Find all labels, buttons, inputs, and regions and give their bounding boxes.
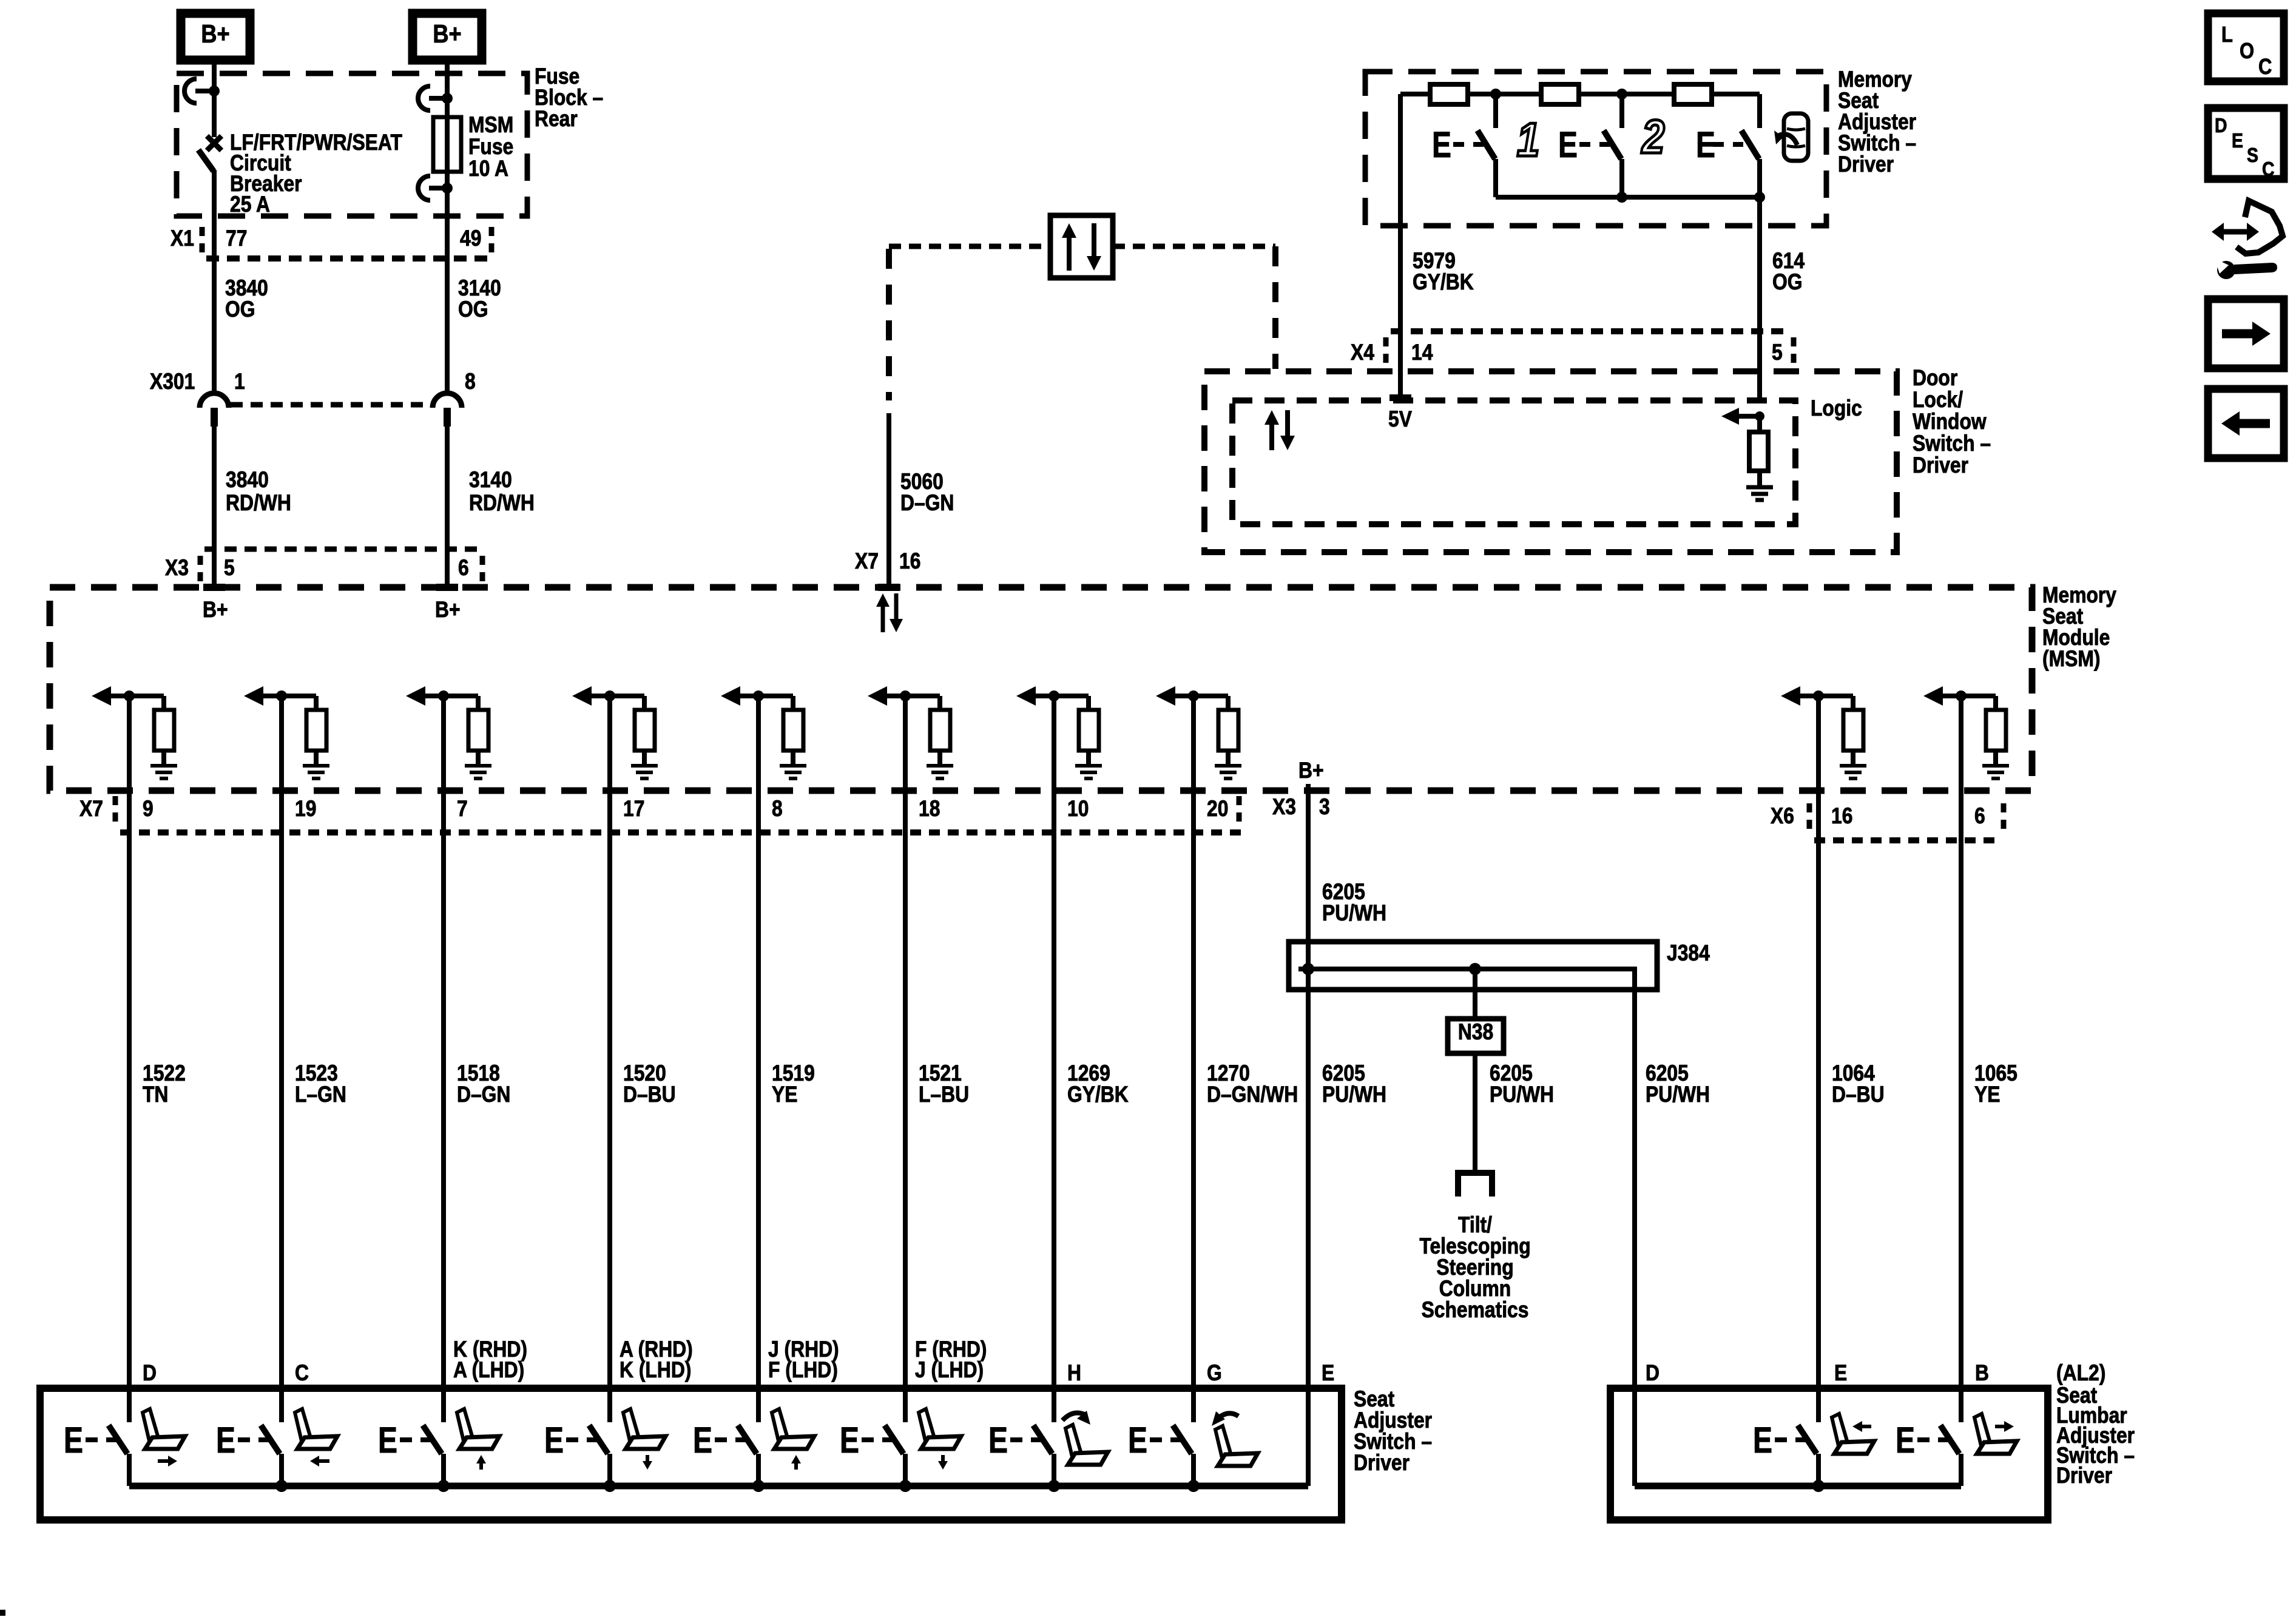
switch 7 (seat adjuster) <box>988 1392 1108 1486</box>
MSM driver output cell 5 <box>721 686 806 778</box>
svg-text:X7: X7 <box>855 549 879 574</box>
MSM driver output cell 6 <box>868 686 953 778</box>
MSM driver output cell 4 <box>572 686 658 778</box>
seat adjuster switch box <box>40 1388 1342 1520</box>
svg-text:E: E <box>216 1420 235 1460</box>
ground (logic) <box>1746 487 1773 500</box>
svg-text:7: 7 <box>457 797 468 822</box>
svg-text:L–GN: L–GN <box>295 1082 346 1107</box>
svg-text:E: E <box>1834 1361 1847 1386</box>
svg-text:PU/WH: PU/WH <box>1490 1082 1554 1107</box>
wire 1518 D–GN <box>444 696 510 1422</box>
connector N38 <box>1448 1019 1504 1053</box>
svg-text:YE: YE <box>1974 1082 2000 1107</box>
circuit breaker LF/FRT/PWR/SEAT 25 A <box>184 79 221 171</box>
svg-text:RD/WH: RD/WH <box>469 491 535 516</box>
memory switch 1 <box>1432 94 1496 197</box>
svg-text:E: E <box>544 1420 564 1460</box>
svg-text:Driver: Driver <box>1913 453 1968 478</box>
MSM fuse 10 A <box>418 86 461 200</box>
dashed wire from box to door lock switch <box>1113 244 1275 249</box>
svg-text:Fuse: Fuse <box>468 135 513 160</box>
wire 1269 GY/BK <box>1054 696 1129 1422</box>
MSM driver output cell 9 <box>1781 686 1866 778</box>
svg-text:N38: N38 <box>1458 1020 1493 1045</box>
svg-text:10 A: 10 A <box>468 157 508 181</box>
wire 3140 RD/WH <box>447 427 535 549</box>
lumbar common bus <box>1635 1480 1961 1492</box>
connector X4 <box>1351 331 1794 365</box>
dashed wire from box to X7:16 <box>889 244 1050 249</box>
svg-text:OG: OG <box>225 297 255 322</box>
label Memory Seat Module (MSM) <box>2042 583 2116 672</box>
label Memory Seat Adjuster Switch - Driver <box>1838 67 1916 177</box>
svg-text:E: E <box>1696 124 1715 165</box>
pin A (RHD)/K (LHD) <box>620 1337 693 1383</box>
car icon <box>1774 113 1808 161</box>
svg-text:D: D <box>2215 114 2227 137</box>
resistor R2 (memory switch) <box>1541 84 1579 104</box>
memory switch top bus wire <box>1400 92 1760 96</box>
svg-text:B+: B+ <box>201 21 229 49</box>
wire fuse to X1 pin 49 <box>445 188 450 258</box>
svg-text:(MSM): (MSM) <box>2042 647 2100 672</box>
switch 1 (seat adjuster) <box>64 1392 185 1486</box>
svg-text:OG: OG <box>1772 270 1802 295</box>
svg-text:3: 3 <box>1319 795 1330 820</box>
connector X301 <box>150 370 476 427</box>
memory switch lower bus <box>1496 195 1760 200</box>
logic dashed box <box>1232 400 1795 524</box>
svg-text:E: E <box>988 1420 1008 1460</box>
svg-text:Driver: Driver <box>1838 152 1894 177</box>
connector X7 pin 16 (MSM) <box>855 549 920 591</box>
svg-text:D: D <box>1646 1361 1660 1386</box>
wire 1519 YE <box>758 696 815 1422</box>
switch 8 (seat adjuster) <box>1128 1392 1258 1486</box>
switch 2 (seat adjuster) <box>216 1392 337 1486</box>
connector X1 <box>171 226 491 258</box>
svg-text:X3: X3 <box>165 556 189 581</box>
svg-text:RD/WH: RD/WH <box>226 491 291 516</box>
svg-text:Rear: Rear <box>535 107 578 132</box>
svg-text:9: 9 <box>143 797 154 822</box>
connector X7 (MSM outputs) <box>79 796 1249 832</box>
svg-text:B: B <box>1975 1361 1989 1386</box>
svg-text:A (LHD): A (LHD) <box>453 1358 524 1383</box>
svg-text:6: 6 <box>1974 804 1985 829</box>
memory switch left wire to X4:14 <box>1398 94 1403 398</box>
switch 3 (seat adjuster) <box>378 1392 499 1486</box>
label Door Lock/Window Switch - Driver <box>1913 366 1991 478</box>
memory switch 2 <box>1558 94 1622 197</box>
svg-text:PU/WH: PU/WH <box>1322 1082 1386 1107</box>
wire 6205 PU/WH (J384 to lumbar switch) <box>1635 969 1710 1385</box>
svg-text:YE: YE <box>772 1082 797 1107</box>
node lower bus junction 1 <box>1616 192 1627 203</box>
svg-text:3140: 3140 <box>469 468 512 493</box>
wire X3:5 into MSM <box>212 549 217 587</box>
svg-text:E: E <box>2232 129 2243 152</box>
MSM internal up/down arrows at X7:16 <box>876 593 903 632</box>
svg-text:C: C <box>295 1361 309 1386</box>
wire J384 to N38 <box>1473 969 1477 1019</box>
resistor R1 (memory switch) <box>1430 84 1468 104</box>
switch 5 (seat adjuster) <box>693 1392 814 1486</box>
wire 1521 L–BU <box>905 696 969 1422</box>
icon LOC <box>2208 13 2284 81</box>
fuse block rear dashed box <box>177 73 527 216</box>
svg-text:19: 19 <box>295 797 316 822</box>
svg-text:E: E <box>1128 1420 1147 1460</box>
svg-text:8: 8 <box>465 370 476 394</box>
svg-text:D–BU: D–BU <box>1832 1082 1885 1107</box>
svg-text:X4: X4 <box>1351 340 1374 365</box>
svg-text:49: 49 <box>460 226 481 251</box>
svg-text:17: 17 <box>623 797 644 822</box>
label circuit breaker <box>230 130 402 217</box>
svg-text:14: 14 <box>1411 340 1433 365</box>
svg-text:C: C <box>2262 158 2274 181</box>
svg-text:E: E <box>1753 1420 1772 1460</box>
icon diagnostic (part + wrench) <box>2212 201 2283 279</box>
svg-text:16: 16 <box>899 549 920 574</box>
wire 5979 GY/BK <box>1413 249 1474 295</box>
wire 3840 RD/WH <box>214 427 291 549</box>
svg-text:C: C <box>2258 55 2272 79</box>
svg-text:1: 1 <box>234 370 245 394</box>
svg-text:77: 77 <box>226 226 247 251</box>
svg-text:GY/BK: GY/BK <box>1067 1082 1129 1107</box>
svg-text:5: 5 <box>1772 340 1783 365</box>
splice pack J384 <box>1289 942 1657 990</box>
MSM driver output cell 10 <box>1923 686 2009 778</box>
svg-text:O: O <box>2240 39 2254 64</box>
svg-text:E: E <box>1896 1420 1915 1460</box>
svg-text:F (LHD): F (LHD) <box>768 1358 838 1383</box>
svg-text:Schematics: Schematics <box>1422 1298 1529 1323</box>
svg-text:X3: X3 <box>1272 795 1296 820</box>
svg-text:OG: OG <box>458 297 488 322</box>
svg-text:Door: Door <box>1913 366 1957 391</box>
svg-text:Logic: Logic <box>1811 396 1862 421</box>
svg-text:PU/WH: PU/WH <box>1646 1082 1710 1107</box>
svg-text:Driver: Driver <box>2056 1463 2112 1488</box>
svg-text:16: 16 <box>1831 804 1852 829</box>
svg-text:6: 6 <box>458 556 469 581</box>
svg-text:X301: X301 <box>150 370 195 394</box>
svg-text:K (LHD): K (LHD) <box>620 1358 691 1383</box>
wire X3:6 into MSM <box>445 549 450 587</box>
svg-text:H: H <box>1067 1361 1081 1386</box>
svg-text:18: 18 <box>919 797 940 822</box>
svg-text:G: G <box>1207 1361 1222 1386</box>
off-page connector (tilt/telescoping) <box>1455 1173 1495 1197</box>
svg-text:L: L <box>2221 23 2233 47</box>
svg-text:PU/WH: PU/WH <box>1322 901 1386 926</box>
lumbar switch 1 <box>1753 1392 1874 1486</box>
wire breaker to X1 pin 77 <box>212 170 217 258</box>
svg-text:GY/BK: GY/BK <box>1413 270 1474 295</box>
svg-text:X6: X6 <box>1771 804 1794 829</box>
svg-text:J (LHD): J (LHD) <box>915 1358 984 1383</box>
svg-text:25 A: 25 A <box>230 192 270 217</box>
wire resistor to ground <box>1757 471 1762 487</box>
label Seat Adjuster Switch - Driver <box>1354 1387 1432 1476</box>
svg-text:J384: J384 <box>1667 941 1710 966</box>
lumbar switch 2 <box>1896 1392 2017 1486</box>
wire 1520 D–BU <box>610 696 676 1422</box>
svg-text:B+: B+ <box>433 21 461 49</box>
icon DESC <box>2208 108 2284 181</box>
wire 3140 OG <box>447 258 501 393</box>
wire 1065 YE <box>1961 696 2017 1422</box>
power symbol B+ #1 <box>181 13 250 60</box>
svg-text:E: E <box>1558 124 1578 165</box>
svg-text:5V: 5V <box>1388 407 1412 432</box>
wire from B+ #1 to circuit breaker <box>212 60 217 91</box>
label (AL2) Seat Lumbar Adjuster Switch - Driver <box>2056 1361 2135 1488</box>
connector X3 pin 3 <box>1272 795 1330 820</box>
MSM driver output cell 2 <box>244 686 329 778</box>
wire 614 OG <box>1760 197 1805 398</box>
svg-text:B+: B+ <box>1298 758 1324 783</box>
label MSM fuse <box>468 113 513 181</box>
wire 5060 D-GN <box>889 413 954 587</box>
lumbar feed wire D <box>1632 1385 1637 1486</box>
seat adjuster common bus <box>129 1422 1308 1492</box>
power symbol B+ #2 <box>413 13 482 60</box>
svg-text:Lock/: Lock/ <box>1913 388 1963 413</box>
seat lumbar adjuster switch box <box>1610 1388 2048 1520</box>
wire 614 into logic <box>1721 408 1764 425</box>
svg-text:B+: B+ <box>435 598 461 623</box>
memory seat adjuster switch dashed box <box>1365 72 1826 226</box>
connector X3 (MSM battery feed) <box>165 549 482 582</box>
svg-text:5: 5 <box>224 556 235 581</box>
MSM driver output cell 3 <box>406 686 491 778</box>
pin F (RHD)/J (LHD) <box>915 1337 987 1383</box>
svg-text:E: E <box>693 1420 712 1460</box>
MSM driver output cell 7 <box>1016 686 1102 778</box>
svg-text:Window: Window <box>1913 410 1987 434</box>
wire 1064 D-BU <box>1818 696 1885 1422</box>
icon forward arrow <box>2208 299 2284 368</box>
svg-text:D: D <box>143 1361 157 1386</box>
svg-text:Switch –: Switch – <box>1913 431 1991 456</box>
svg-text:D–GN: D–GN <box>900 491 954 516</box>
label Fuse Block - Rear <box>535 64 603 132</box>
switch 4 (seat adjuster) <box>544 1392 666 1486</box>
svg-text:D–BU: D–BU <box>623 1082 676 1107</box>
door lock/window switch dashed box <box>1204 371 1897 552</box>
svg-text:2: 2 <box>1641 110 1664 163</box>
label Tilt/Telescoping Steering Column Schematics <box>1419 1213 1530 1323</box>
svg-text:1: 1 <box>1517 113 1539 166</box>
node lower bus junction 2 <box>1754 192 1765 203</box>
icon back arrow <box>2208 389 2284 458</box>
svg-text:8: 8 <box>772 797 783 822</box>
svg-text:X7: X7 <box>79 797 103 822</box>
connector X6 <box>1771 803 2004 840</box>
wire 1522 TN <box>129 696 186 1422</box>
node bus junction 1 <box>1490 89 1501 100</box>
svg-text:E: E <box>1432 124 1451 165</box>
wire 6205 PU/WH (B+ feed from MSM) <box>1308 784 1386 1422</box>
svg-text:3840: 3840 <box>226 468 269 493</box>
MSM driver output cell 8 <box>1156 686 1241 778</box>
wire 6205 PU/WH (to steering column) <box>1475 1053 1554 1170</box>
svg-text:(AL2): (AL2) <box>2056 1361 2105 1386</box>
logic direction box (up/down arrows) <box>1050 215 1113 278</box>
wire from B+ #2 to MSM fuse <box>445 60 450 98</box>
svg-text:D–GN: D–GN <box>457 1082 510 1107</box>
logic up/down arrows <box>1264 410 1295 450</box>
svg-text:B+: B+ <box>203 598 228 623</box>
pin J (RHD)/F (LHD) <box>768 1337 839 1383</box>
svg-text:Driver: Driver <box>1354 1451 1410 1476</box>
resistor (logic pull-down) <box>1757 416 1762 432</box>
switch 6 (seat adjuster) <box>840 1392 961 1486</box>
svg-text:20: 20 <box>1207 797 1228 822</box>
pin K (RHD)/A (LHD) <box>453 1337 527 1383</box>
svg-text:E: E <box>840 1420 859 1460</box>
svg-text:L–BU: L–BU <box>919 1082 969 1107</box>
memory switch 3 (exit) <box>1696 94 1760 197</box>
resistor R3 (memory switch) <box>1674 84 1712 104</box>
wire 3840 OG <box>214 258 268 393</box>
MSM driver output cell 1 <box>92 686 177 778</box>
svg-text:X1: X1 <box>171 226 194 251</box>
node bus junction 2 <box>1616 89 1627 100</box>
svg-text:D–GN/WH: D–GN/WH <box>1207 1082 1298 1107</box>
svg-text:E: E <box>378 1420 397 1460</box>
svg-text:TN: TN <box>143 1082 168 1107</box>
wire 1270 D–GN/WH <box>1194 696 1298 1422</box>
memory seat module dashed box <box>50 587 2032 791</box>
svg-text:S: S <box>2247 144 2258 167</box>
wire 1523 L–GN <box>282 696 346 1422</box>
svg-text:E: E <box>64 1420 83 1460</box>
svg-text:10: 10 <box>1067 797 1089 822</box>
svg-text:E: E <box>1322 1361 1334 1386</box>
page mark <box>0 1610 5 1616</box>
svg-text:MSM: MSM <box>468 113 513 138</box>
